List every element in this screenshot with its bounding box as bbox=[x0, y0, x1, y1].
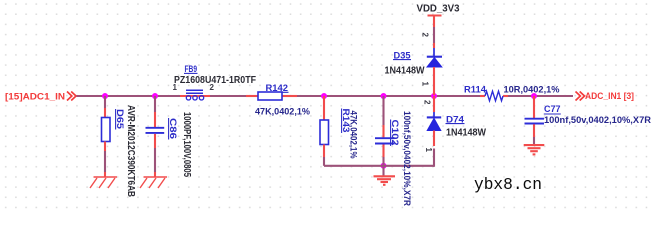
svg-text:2: 2 bbox=[421, 33, 430, 38]
wire segment B (FB9 to R142) bbox=[210, 95, 246, 97]
svg-text:D35: D35 bbox=[394, 50, 411, 60]
port ADC_IN1 [3] bbox=[576, 91, 635, 101]
svg-text:100nf,50v,0402,10%,X7R: 100nf,50v,0402,10%,X7R bbox=[402, 111, 412, 206]
wire C102 top pin bbox=[382, 125, 384, 137]
pin 1 of D74 bbox=[424, 148, 433, 153]
wire bottom rail bbox=[324, 165, 434, 167]
varistor D65 bbox=[102, 105, 137, 197]
svg-text:ybx8.cn: ybx8.cn bbox=[474, 176, 542, 195]
wire D74 anode pin bbox=[433, 131, 435, 147]
junction node at C102 bottom rail bbox=[381, 163, 387, 169]
svg-text:ADC_IN1 [3]: ADC_IN1 [3] bbox=[585, 91, 634, 101]
wire D74 to bottom rail bbox=[433, 149, 435, 167]
svg-text:D74: D74 bbox=[446, 114, 464, 124]
junction node at R143 bbox=[321, 93, 327, 99]
wire D35 anode pin bbox=[433, 67, 435, 95]
wire C77 to ground bbox=[533, 137, 535, 145]
resistor R114 bbox=[464, 84, 560, 101]
svg-text:100nf,50v,0402,10%,X7R: 100nf,50v,0402,10%,X7R bbox=[544, 115, 652, 125]
junction node at C86 bbox=[152, 93, 158, 99]
pin 2 of D74 bbox=[423, 100, 432, 105]
svg-text:PZ1608U471-1R0TF: PZ1608U471-1R0TF bbox=[174, 75, 256, 86]
svg-text:C86: C86 bbox=[168, 118, 178, 139]
svg-text:R114: R114 bbox=[464, 84, 486, 94]
resistor R143 bbox=[320, 109, 359, 159]
wire C102 branch upper bbox=[382, 96, 384, 125]
svg-text:VDD_3V3: VDD_3V3 bbox=[417, 4, 461, 15]
svg-text:1000PF,100V,0805: 1000PF,100V,0805 bbox=[181, 112, 192, 177]
wire C102 to rail bbox=[382, 157, 384, 166]
wire C86 branch upper bbox=[154, 96, 156, 112]
svg-text:2: 2 bbox=[210, 83, 215, 92]
wire R114 left pin bbox=[480, 95, 485, 97]
svg-text:47K,0402,1%: 47K,0402,1% bbox=[255, 107, 310, 117]
wire D35 cathode pin bbox=[433, 43, 435, 48]
ferrite bead FB9 bbox=[173, 64, 257, 100]
svg-text:AVR-M2012C390KT6AB: AVR-M2012C390KT6AB bbox=[125, 105, 136, 197]
wire R114 right pin bbox=[503, 95, 508, 97]
svg-text:D65: D65 bbox=[115, 109, 125, 129]
wire R142 left pin bbox=[246, 95, 258, 97]
wire D65 branch upper bbox=[104, 96, 106, 108]
capacitor C102 bbox=[375, 111, 412, 206]
svg-text:1N4148W: 1N4148W bbox=[385, 66, 426, 77]
wire D65 bottom pin bbox=[104, 142, 106, 152]
capacitor C77 bbox=[525, 104, 652, 125]
junction node at C102 bbox=[381, 93, 387, 99]
ground earth below C102 bbox=[374, 176, 396, 185]
wire segment D (R114 to port ADC_IN1) bbox=[508, 95, 573, 97]
wire ground stem below rail bbox=[382, 166, 384, 176]
wire R143 to bottom rail bbox=[323, 157, 325, 166]
port [15]ADC1_IN bbox=[5, 92, 76, 102]
wire R143 top pin bbox=[323, 96, 325, 120]
junction node at C77 bbox=[531, 93, 537, 99]
svg-text:C102: C102 bbox=[390, 120, 400, 146]
wire C86 top pin bbox=[154, 112, 156, 127]
svg-text:1: 1 bbox=[173, 83, 178, 92]
junction node at D35/D74 bbox=[431, 93, 437, 99]
wire C77 branch bbox=[533, 96, 535, 118]
wire VDD to D35 bbox=[433, 27, 435, 43]
wire C102 bottom pin bbox=[382, 145, 384, 158]
ground earth below C77 bbox=[524, 145, 545, 154]
diode D35 bbox=[385, 48, 443, 77]
wire FB9 pin stubs bbox=[180, 95, 210, 97]
ground chassis below D65 bbox=[90, 177, 117, 188]
power symbol VDD_3V3 bbox=[417, 4, 461, 28]
svg-text:2: 2 bbox=[423, 100, 432, 105]
junction node at D65 bbox=[102, 93, 108, 99]
wire C86 to ground bbox=[154, 148, 156, 172]
wire D74 cathode pin bbox=[433, 96, 435, 112]
svg-text:[15]ADC1_IN: [15]ADC1_IN bbox=[5, 92, 65, 102]
wire net ADC1_IN segment A bbox=[77, 95, 181, 97]
pin 2 of D35 bbox=[421, 33, 430, 38]
wire D65 top pin bbox=[104, 108, 106, 118]
svg-text:C77: C77 bbox=[544, 104, 561, 114]
wire C86 bottom pin bbox=[154, 134, 156, 148]
wire R143 bottom pin bbox=[323, 145, 325, 158]
resistor R142 bbox=[255, 83, 310, 117]
svg-text:1N4148W: 1N4148W bbox=[446, 127, 487, 138]
ground chassis below C86 bbox=[140, 177, 167, 188]
wire R142 right pin bbox=[282, 95, 297, 97]
svg-text:47K,0402,1%: 47K,0402,1% bbox=[349, 111, 359, 159]
capacitor C86 bbox=[146, 112, 193, 177]
svg-text:FB9: FB9 bbox=[185, 64, 198, 74]
diode D74 bbox=[427, 112, 487, 138]
wire segment C (R142 to R114) bbox=[297, 95, 480, 97]
wire D65 to ground bbox=[104, 151, 106, 172]
svg-text:10R,0402,1%: 10R,0402,1% bbox=[504, 84, 560, 94]
svg-text:1: 1 bbox=[424, 148, 433, 153]
pin 1 of D35 bbox=[421, 82, 430, 87]
wire C77 bottom pin bbox=[533, 124, 535, 137]
svg-text:1: 1 bbox=[421, 82, 430, 87]
